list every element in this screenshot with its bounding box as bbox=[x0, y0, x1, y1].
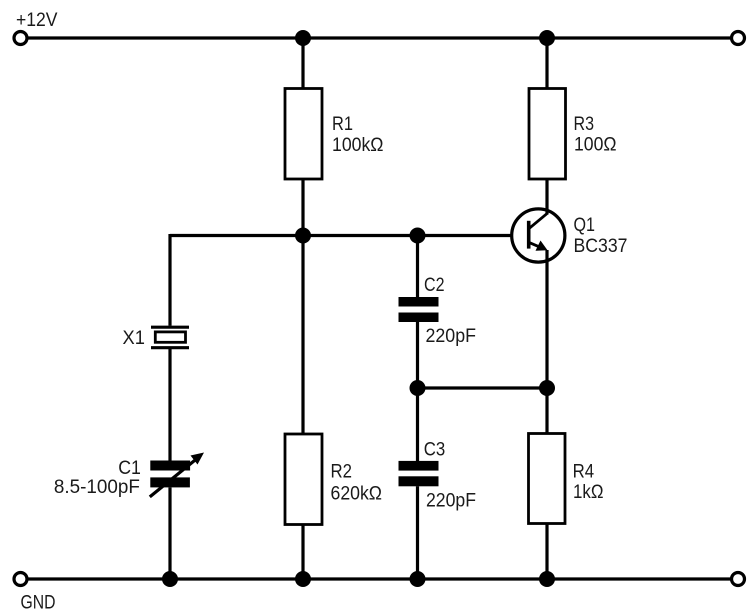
svg-text:220pF: 220pF bbox=[426, 326, 477, 347]
wire C2 to emitter row bbox=[416, 322, 419, 388]
svg-text:8.5-100pF: 8.5-100pF bbox=[54, 477, 140, 498]
C3 bottom plate bbox=[399, 476, 439, 486]
svg-text:100Ω: 100Ω bbox=[574, 134, 617, 155]
wire base row horizontal bbox=[170, 234, 529, 237]
Q1 collector diagonal bbox=[529, 213, 548, 229]
terminal +12V left bbox=[14, 32, 27, 45]
resistor R4 bbox=[529, 434, 566, 524]
junction bottom rail R2 bbox=[295, 571, 311, 587]
junction emitter row Q1-R4 bbox=[539, 380, 555, 396]
wire C1 to GND rail bbox=[168, 488, 171, 580]
junction base node R1-R2 bbox=[295, 228, 311, 244]
X1 body bbox=[155, 332, 185, 342]
C1 top plate bbox=[150, 461, 190, 471]
svg-text:R2: R2 bbox=[331, 462, 353, 483]
C3 top plate bbox=[399, 461, 439, 471]
junction bottom rail C3 bbox=[410, 571, 426, 587]
svg-text:Q1: Q1 bbox=[574, 215, 596, 236]
junction bottom rail R4 bbox=[539, 571, 555, 587]
Q1 body circle bbox=[512, 209, 565, 262]
Q1 base bar bbox=[527, 221, 531, 249]
svg-text:GND: GND bbox=[21, 592, 56, 612]
junction bottom rail X1 branch bbox=[162, 571, 178, 587]
wire R2 to GND rail bbox=[301, 525, 304, 580]
resistor R3 bbox=[529, 89, 566, 180]
junction base node C2 branch bbox=[410, 228, 426, 244]
capacitor C2 bbox=[399, 297, 439, 322]
C2 top plate bbox=[399, 297, 439, 307]
wire base node to R2 bbox=[301, 236, 304, 436]
svg-text:R4: R4 bbox=[573, 462, 595, 483]
svg-text:R3: R3 bbox=[574, 114, 595, 135]
svg-text:X1: X1 bbox=[123, 328, 145, 349]
C1 arrowhead bbox=[191, 453, 205, 465]
junction top rail R3 bbox=[539, 30, 555, 46]
wire R4 to GND rail bbox=[545, 524, 548, 580]
Q1 wire emitter down bbox=[545, 250, 548, 388]
wire base node down left branch bbox=[168, 234, 171, 326]
wire X1 to C1 bbox=[168, 349, 171, 462]
C2 bottom plate bbox=[399, 313, 439, 323]
wire C3 to GND rail bbox=[416, 486, 419, 579]
C1 arrow line bbox=[150, 459, 197, 497]
junction emitter row C2-C3 bbox=[410, 380, 426, 396]
wire top rail bbox=[27, 36, 731, 39]
resistor R2 bbox=[285, 434, 322, 525]
wire R1 to base node bbox=[301, 179, 304, 236]
wire VCC to R3 bbox=[545, 38, 548, 90]
svg-text:C2: C2 bbox=[424, 275, 445, 296]
svg-text:+12V: +12V bbox=[16, 10, 58, 31]
svg-text:R1: R1 bbox=[332, 114, 353, 135]
svg-text:100kΩ: 100kΩ bbox=[332, 135, 384, 156]
Q1 wire collector to R3 bbox=[545, 179, 548, 215]
wire bottom rail bbox=[27, 577, 731, 580]
svg-text:1kΩ: 1kΩ bbox=[573, 482, 604, 503]
svg-text:220pF: 220pF bbox=[426, 491, 476, 512]
transistor Q1 bbox=[512, 179, 565, 388]
crystal X1 bbox=[151, 327, 189, 348]
variable capacitor C1 bbox=[150, 453, 204, 497]
resistor R1 bbox=[285, 89, 322, 180]
wire VCC to R1 bbox=[301, 38, 304, 90]
wire emitter row to C3 bbox=[416, 388, 419, 462]
svg-text:C3: C3 bbox=[424, 439, 446, 460]
terminal GND right bbox=[732, 573, 745, 586]
Q1 emitter arrowhead bbox=[536, 241, 548, 251]
Q1 emitter diagonal bbox=[529, 242, 543, 248]
wire emitter row to R4 bbox=[545, 388, 548, 435]
capacitor C3 bbox=[399, 461, 439, 486]
X1 top electrode bbox=[151, 326, 189, 329]
junction top rail R1 bbox=[295, 30, 311, 46]
svg-text:BC337: BC337 bbox=[574, 236, 628, 257]
wire base node to C2 bbox=[416, 236, 419, 298]
terminal GND left bbox=[14, 573, 27, 586]
X1 bottom electrode bbox=[151, 346, 189, 349]
wire emitter row horizontal bbox=[418, 386, 548, 389]
svg-text:620kΩ: 620kΩ bbox=[331, 483, 383, 504]
terminal +12V right bbox=[732, 32, 745, 45]
C1 bottom plate bbox=[150, 477, 190, 487]
